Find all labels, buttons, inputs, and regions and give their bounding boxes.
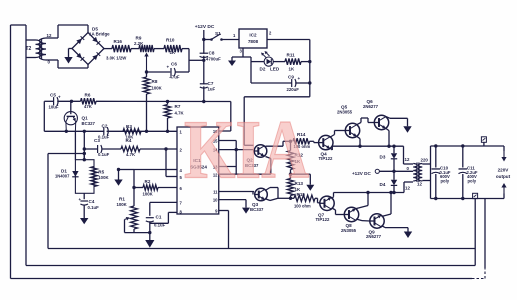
svg-text:C3: C3	[94, 138, 100, 143]
svg-text:10: 10	[213, 198, 218, 203]
svg-text:12: 12	[405, 185, 410, 190]
svg-text:TIP122: TIP122	[319, 156, 333, 161]
svg-text:R1: R1	[119, 197, 125, 202]
svg-text:+: +	[79, 197, 82, 202]
svg-text:4700uF: 4700uF	[206, 57, 221, 62]
svg-text:1A Bridge: 1A Bridge	[89, 32, 110, 37]
svg-text:1uF: 1uF	[208, 87, 216, 92]
svg-text:output: output	[496, 174, 511, 179]
svg-text:100K: 100K	[98, 175, 109, 180]
svg-text:2N3055: 2N3055	[341, 228, 357, 233]
svg-text:220uF: 220uF	[287, 87, 300, 92]
svg-text:IC2: IC2	[249, 33, 257, 38]
svg-text:R8: R8	[152, 79, 158, 84]
svg-text:10uF: 10uF	[49, 105, 59, 110]
svg-text:4.7K: 4.7K	[126, 152, 136, 157]
svg-text:C4: C4	[89, 199, 95, 204]
svg-text:C5: C5	[50, 93, 56, 98]
svg-text:R10: R10	[166, 38, 175, 43]
svg-text:+12V DC: +12V DC	[352, 171, 371, 176]
svg-text:R7: R7	[175, 104, 181, 109]
svg-text:BC327: BC327	[82, 121, 96, 126]
svg-text:TIP122: TIP122	[316, 217, 330, 222]
svg-text:2N3055: 2N3055	[337, 110, 353, 115]
svg-text:R11: R11	[287, 53, 296, 58]
svg-text:1K: 1K	[289, 67, 295, 72]
svg-text:C8: C8	[209, 50, 215, 55]
svg-text:R16: R16	[114, 39, 123, 44]
svg-text:1N4007: 1N4007	[55, 174, 70, 179]
svg-text:3.0K 1/2W: 3.0K 1/2W	[106, 56, 127, 61]
svg-text:12: 12	[47, 33, 52, 38]
svg-text:+12V DC: +12V DC	[195, 24, 215, 30]
svg-text:4.7K: 4.7K	[175, 111, 185, 116]
svg-text:D2: D2	[260, 67, 266, 72]
svg-text:R6: R6	[85, 93, 91, 98]
svg-text:0.1uF: 0.1uF	[98, 152, 110, 157]
svg-text:+: +	[298, 76, 301, 81]
svg-text:KIA: KIA	[184, 104, 310, 196]
svg-text:R5: R5	[98, 170, 104, 175]
svg-text:12: 12	[417, 181, 422, 186]
svg-text:100K: 100K	[152, 86, 163, 91]
svg-text:220V: 220V	[498, 168, 510, 173]
svg-text:S1: S1	[215, 31, 221, 37]
svg-text:C9: C9	[288, 75, 294, 80]
svg-text:12: 12	[405, 157, 410, 162]
svg-text:1K: 1K	[170, 50, 176, 55]
svg-text:2N6277: 2N6277	[363, 104, 379, 109]
svg-text:R2: R2	[145, 179, 151, 184]
svg-text:C1: C1	[156, 214, 162, 219]
svg-text:C2: C2	[102, 124, 108, 129]
svg-text:47K: 47K	[84, 104, 93, 109]
svg-text:+: +	[167, 65, 170, 70]
svg-text:D3: D3	[380, 154, 386, 159]
svg-text:0.1uF: 0.1uF	[88, 205, 100, 210]
svg-text:poly: poly	[468, 179, 477, 184]
svg-text:100 ohm: 100 ohm	[294, 204, 311, 209]
svg-text:R9: R9	[136, 36, 142, 41]
svg-text:C6: C6	[171, 62, 177, 67]
svg-text:Q1: Q1	[82, 116, 89, 121]
svg-text:+: +	[58, 95, 61, 100]
svg-text:D4: D4	[380, 182, 386, 187]
svg-text:2N6277: 2N6277	[366, 234, 382, 239]
svg-text:R4: R4	[126, 138, 132, 143]
svg-text:R3: R3	[126, 124, 132, 129]
svg-text:C7: C7	[208, 81, 214, 86]
svg-text:LED: LED	[270, 67, 280, 72]
svg-text:BC337: BC337	[250, 207, 264, 212]
svg-text:47uF: 47uF	[170, 75, 180, 80]
svg-text:T2: T2	[26, 46, 32, 52]
svg-text:poly: poly	[441, 179, 450, 184]
svg-text:220: 220	[421, 158, 429, 163]
svg-text:D1: D1	[61, 168, 67, 173]
svg-text:100K: 100K	[143, 191, 154, 196]
svg-text:7808: 7808	[248, 39, 259, 44]
svg-text:2.2K: 2.2K	[134, 41, 144, 46]
svg-text:100K: 100K	[117, 202, 128, 207]
